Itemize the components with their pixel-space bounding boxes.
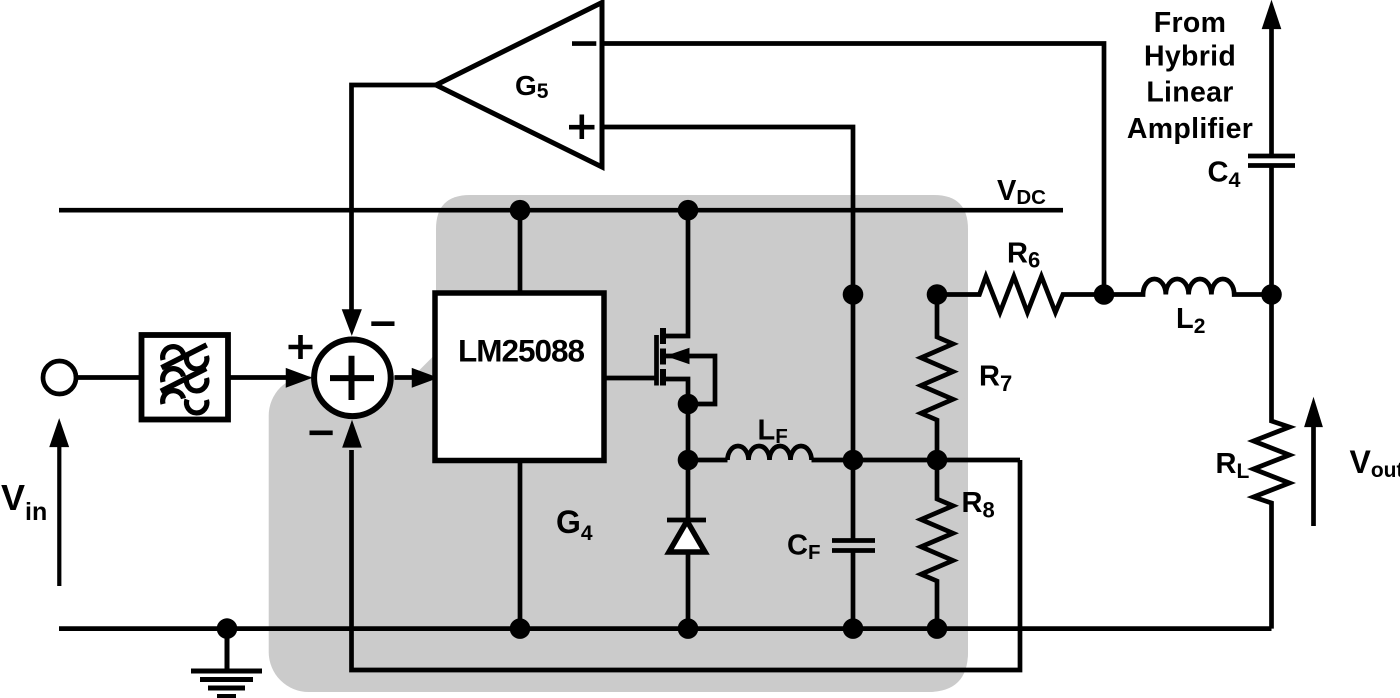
capacitor CF (832, 538, 875, 543)
inductor L2 (1104, 279, 1272, 295)
arrow into summer top (343, 310, 361, 334)
junction ground at input ground symbol (217, 618, 238, 639)
arrow to hybrid linear amplifier (1269, 26, 1274, 156)
shaded buck converter region G4 (269, 195, 968, 692)
svg-text:Hybrid: Hybrid (1144, 41, 1236, 73)
svg-text:Linear: Linear (1146, 77, 1233, 109)
filter slash 1 (162, 345, 207, 368)
filter tilde 2 (163, 369, 207, 391)
filter tilde 1 (163, 347, 207, 369)
junction CF bottom on ground bus (843, 618, 864, 639)
G5 minus sign (572, 41, 596, 46)
wire diode anode to ground (686, 552, 691, 629)
wire MOSFET body to source (664, 356, 715, 404)
junction MOSFET source (678, 394, 699, 415)
wire G5 non-inverting input column (602, 127, 853, 540)
svg-text:LM25088: LM25088 (458, 333, 585, 369)
svg-text:L2: L2 (1176, 303, 1205, 338)
node switch node (LF left / diode cathode) (678, 450, 699, 471)
wire switch node down to diode (686, 404, 691, 520)
summer minus sign bottom (310, 430, 333, 435)
node L2 right / C4 bottom / RL top (1261, 284, 1282, 305)
svg-text:Amplifier: Amplifier (1127, 113, 1253, 145)
filter tilde 3 (163, 391, 207, 413)
node R6 right / L2 left / G5 inverting input (1094, 284, 1115, 305)
arrow into summer bottom (343, 422, 361, 447)
junction LM25088 supply on VDC rail (510, 200, 531, 221)
wire LM25088 gate drive (604, 376, 656, 381)
junction diode anode on ground bus (678, 618, 699, 639)
node feedback divider R7/R8 (927, 450, 948, 471)
transistor Q1 channel segments (660, 328, 666, 344)
feedback wire from divider to summer (352, 450, 1021, 670)
summer plus sign (289, 345, 313, 350)
op-amp G5 (436, 3, 602, 168)
wire MOSFET source (660, 379, 688, 404)
wire ground bus (59, 626, 1272, 631)
wire summer to LM25088 (395, 375, 413, 380)
arrow into LM25088 (413, 369, 437, 387)
junction LF right on CF column (843, 450, 864, 471)
wire LM25088 bottom to ground (518, 460, 523, 629)
wire Vin source to filter (76, 375, 141, 380)
svg-text:From: From (1154, 7, 1226, 39)
input source circle (43, 361, 76, 394)
resistor R7 (921, 295, 953, 461)
diode D1 (667, 518, 706, 523)
svg-text:C4: C4 (1208, 157, 1241, 193)
Vin arrow (57, 446, 61, 586)
node R6 left / R7 top (927, 284, 948, 305)
resistor R6 (937, 276, 1104, 312)
wire G5 output to summing node (352, 85, 437, 312)
transistor Q1 gate bar (654, 335, 659, 386)
summer minus sign top (371, 321, 394, 326)
wire switch node to LF (688, 458, 728, 463)
svg-text:Vout: Vout (1350, 444, 1400, 482)
G5 plus sign (569, 125, 595, 130)
svg-text:R8: R8 (962, 487, 995, 523)
input filter box (142, 335, 229, 420)
svg-text:Vin: Vin (1, 477, 47, 526)
resistor RL (1254, 295, 1290, 629)
MOSFET body arrow (667, 349, 689, 364)
svg-text:R6: R6 (1007, 238, 1040, 273)
capacitor C4 (1248, 154, 1295, 159)
label From Hybrid Linear Amplifier (1127, 7, 1253, 145)
wire filter to summer (228, 375, 290, 380)
resistor R8 (921, 460, 953, 629)
Vout arrow (1311, 424, 1316, 526)
ground symbol (191, 629, 262, 697)
wire LF to output node (812, 458, 1021, 463)
summing junction (314, 340, 391, 417)
arrow into summer left (287, 369, 311, 387)
LM25088 block (435, 293, 604, 461)
filter slash 2 (161, 368, 206, 391)
wire C4 to output node (1269, 166, 1274, 296)
wire CF bottom to ground (851, 551, 856, 629)
junction MOSFET drain on VDC rail (678, 200, 699, 221)
inductor LF (728, 446, 812, 460)
node converter output (CF top column) (843, 284, 864, 305)
junction R8 bottom on ground bus (927, 618, 948, 639)
wire G5 inverting input from output node (602, 44, 1104, 295)
svg-text:VDC: VDC (997, 175, 1046, 209)
svg-text:RL: RL (1216, 448, 1250, 483)
wire MOSFET drain from VDC (660, 210, 688, 336)
svg-text:R7: R7 (979, 361, 1012, 397)
wire VDC rail (59, 208, 1063, 213)
junction LM25088 ground pin on ground bus (510, 618, 531, 639)
wire LM25088 top to VDC (518, 210, 523, 293)
